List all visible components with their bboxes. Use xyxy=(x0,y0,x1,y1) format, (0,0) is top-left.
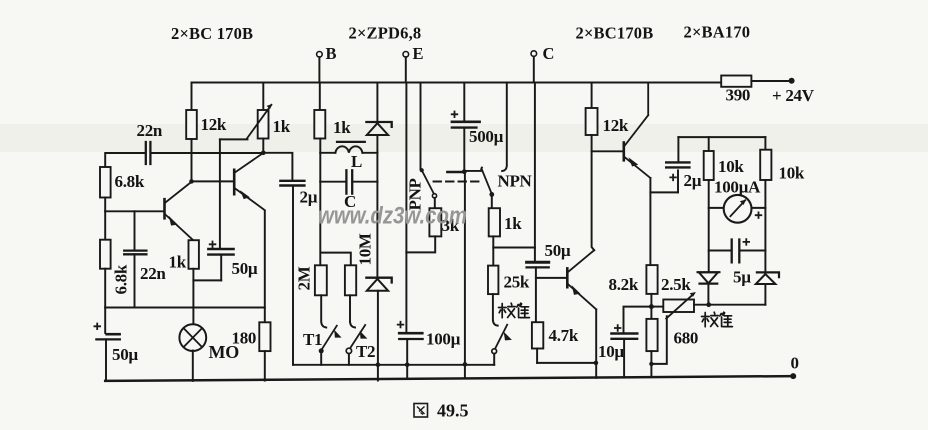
wire base node down to 4.7k xyxy=(535,278,537,322)
transistor Q3 emitter lead with arrow xyxy=(624,157,650,178)
svg-text:2M: 2M xyxy=(295,266,314,290)
wire bus to 12k R1 xyxy=(191,83,193,111)
svg-text:100µA: 100µA xyxy=(714,178,761,197)
wire 4.7k to emitter rail xyxy=(536,349,538,363)
resistor 10k R17 xyxy=(760,150,771,180)
transistor Q2 base bar xyxy=(233,170,236,194)
svg-text:www.dz3w.com: www.dz3w.com xyxy=(318,203,467,230)
svg-text:10µ: 10µ xyxy=(598,342,624,361)
faint scan band xyxy=(0,124,928,152)
wire tank left leg xyxy=(319,153,321,182)
plus of C10 xyxy=(614,324,621,331)
wire 6.8k R3 to bottom node xyxy=(104,269,106,308)
node wiper / 680 junction xyxy=(649,362,653,366)
transistor Q3 base bar xyxy=(622,143,625,161)
wire 1k R10 to 25k node xyxy=(492,236,494,265)
capacitor 2u C5 xyxy=(263,153,292,180)
wire zener ZPD1 to tank right leg xyxy=(376,135,378,182)
resistor 10k R16 xyxy=(704,151,714,180)
svg-text:2×BC170B: 2×BC170B xyxy=(576,24,654,43)
resistor 180 R5 xyxy=(259,322,270,351)
resistor 1k R6 xyxy=(314,110,325,139)
transistor Q1 collector lead xyxy=(165,182,192,203)
plus of C6 xyxy=(397,321,404,328)
svg-text:22n: 22n xyxy=(137,121,163,140)
transistor Q4 base bar xyxy=(566,268,569,287)
node Q4 emitter / rail junction xyxy=(594,361,599,366)
svg-text:390: 390 xyxy=(726,86,751,105)
resistor 1k R10 xyxy=(489,208,500,236)
resistor 1k R4 (Q1 emitter) xyxy=(189,240,199,269)
meter M1 100uA xyxy=(709,207,766,209)
resistor 2M R7 xyxy=(315,265,327,295)
plus of C3 xyxy=(94,323,102,330)
wire bus to 500u xyxy=(463,83,465,121)
svg-text:1k: 1k xyxy=(504,214,522,233)
capacitor 10u C10 (electrolytic) xyxy=(612,332,638,335)
wire 1k R6 to tank xyxy=(319,139,321,153)
svg-text:T2: T2 xyxy=(356,342,375,361)
transistor Q2 collector lead xyxy=(235,153,264,173)
wire Q1 base xyxy=(105,210,163,212)
wire bus to NPN switch fixed contact xyxy=(502,83,507,172)
hanzi 校准 (calibration, switch S2) xyxy=(702,312,733,327)
svg-text:10k: 10k xyxy=(718,157,744,176)
capacitor 22n C1 xyxy=(146,142,151,164)
wire emitter to 8.2k xyxy=(649,192,651,265)
bottom rail 0V xyxy=(105,376,793,381)
wire Q4 emitter to bottom rail xyxy=(595,309,597,378)
svg-text:2×ZPD6,8: 2×ZPD6,8 xyxy=(349,24,422,43)
wire tank down to zener ZPD2 xyxy=(376,182,378,277)
wire meter branch right xyxy=(764,137,766,150)
wire Q3 emitter node xyxy=(650,178,678,192)
wire C line down to 50u xyxy=(534,83,536,262)
terminal C xyxy=(531,51,537,57)
capacitor 5u C11 xyxy=(709,250,766,252)
svg-text:12k: 12k xyxy=(603,116,629,135)
resistor 390 (horizontal, in bus) xyxy=(721,76,751,87)
touch switch T1 xyxy=(321,295,326,327)
svg-text:5µ: 5µ xyxy=(733,268,751,287)
wire 500u line to bottom rail xyxy=(464,174,466,378)
diode D2 (up) xyxy=(757,272,779,277)
wire E line down xyxy=(405,83,407,253)
wire bus to zener ZPD1 xyxy=(376,83,378,122)
svg-text:1k: 1k xyxy=(169,253,187,272)
wire 2u to meter branch xyxy=(678,136,765,138)
wire tank to 2M/10M branch xyxy=(320,182,351,266)
resistor 8.2k R14 xyxy=(646,265,657,294)
svg-text:E: E xyxy=(413,44,424,63)
top supply bus wire +24V xyxy=(192,82,722,84)
wire 22n feedback line xyxy=(105,153,263,167)
transistor Q2 emitter lead with arrow xyxy=(235,188,265,210)
plus of meter xyxy=(755,212,762,219)
svg-text:1k: 1k xyxy=(273,117,291,136)
resistor 12k R13 xyxy=(586,108,598,135)
svg-text:NPN: NPN xyxy=(498,172,533,191)
svg-text:22n: 22n xyxy=(140,264,166,283)
terminal E xyxy=(403,52,409,58)
svg-text:2.5k: 2.5k xyxy=(661,275,691,294)
wire 180 to bottom rail xyxy=(264,351,266,381)
capacitor C (tank) xyxy=(320,181,345,183)
svg-text:500µ: 500µ xyxy=(469,127,504,146)
plus of C9 xyxy=(669,174,676,181)
capacitor 100u C6 (electrolytic) xyxy=(399,332,422,335)
capacitor 500u C7 (electrolytic) xyxy=(452,121,480,124)
resistor 25k R11 xyxy=(488,266,498,295)
wire B to bus xyxy=(318,57,320,82)
wire bus to 12k R13 xyxy=(591,83,593,109)
+24V terminal dot xyxy=(789,78,795,84)
wire 50u C4 bottom link xyxy=(193,279,221,281)
svg-text:6.8k: 6.8k xyxy=(112,264,131,294)
svg-text:+ 24V: + 24V xyxy=(772,86,815,105)
wire NPN switch to 1k xyxy=(491,197,493,208)
wire bus to PNP switch pivot xyxy=(420,83,422,170)
svg-text:L: L xyxy=(351,152,362,171)
svg-text:1k: 1k xyxy=(333,118,351,137)
svg-text:0: 0 xyxy=(791,354,799,373)
svg-text:180: 180 xyxy=(232,329,257,348)
node diode junction xyxy=(706,302,711,307)
wire 680 to bottom rail xyxy=(650,351,652,377)
resistor 6.8k R2 xyxy=(100,167,111,198)
wire Q2 emitter down xyxy=(264,211,266,322)
resistor 6.8k R3 xyxy=(104,211,106,239)
svg-text:2µ: 2µ xyxy=(300,188,318,207)
resistor 12k R1 xyxy=(186,110,197,139)
capacitor 50u C8 xyxy=(527,261,549,264)
svg-text:10M: 10M xyxy=(356,233,375,265)
wire bus to 1k pot P1 xyxy=(262,83,264,111)
capacitor 22n C2 xyxy=(134,211,136,249)
node 500u / emitter rail junction xyxy=(463,362,468,367)
resistor 4.7k R12 xyxy=(532,322,543,348)
svg-text:25k: 25k xyxy=(504,273,530,292)
svg-text:49.5: 49.5 xyxy=(437,401,469,421)
transistor Q4 collector lead xyxy=(568,250,595,272)
wire 6.8k R2 to Q1 base node xyxy=(104,198,106,212)
lamp MO xyxy=(179,324,206,351)
diode D1 (down) xyxy=(698,271,720,273)
svg-text:6.8k: 6.8k xyxy=(115,172,145,191)
potentiometer 2.5k P2 xyxy=(651,306,663,308)
potentiometer 1k P1 xyxy=(258,110,269,139)
wire 3k to E line xyxy=(406,236,435,252)
wire 12k to collector node xyxy=(191,139,193,181)
svg-text:2µ: 2µ xyxy=(684,171,702,190)
node zener2 / emitter rail junction xyxy=(376,363,381,368)
node Q1 collector junction xyxy=(189,179,194,184)
svg-text:50µ: 50µ xyxy=(232,259,258,278)
svg-text:10k: 10k xyxy=(779,164,805,183)
node NPN switch junction xyxy=(462,169,467,174)
wire collector node to Q2 base xyxy=(192,180,234,182)
wire bus to +24V terminal xyxy=(751,80,789,82)
plus of C11 xyxy=(743,238,750,245)
transistor Q1 emitter lead with arrow xyxy=(165,214,193,240)
wire switch to 3k xyxy=(434,198,436,208)
wire 2.5k wiper down xyxy=(651,316,666,364)
resistor 680 R15 xyxy=(646,319,657,351)
capacitor 50u C4 (electrolytic) xyxy=(219,139,221,248)
capacitor 50u C3 (electrolytic, bottom left) xyxy=(104,308,106,334)
svg-text:4.7k: 4.7k xyxy=(549,326,579,345)
dashed gang link xyxy=(434,181,481,183)
wire lower-left node rail xyxy=(105,307,265,309)
node 8.2k / 680 junction xyxy=(650,294,652,319)
transistor Q1 base bar xyxy=(163,199,166,218)
svg-text:100µ: 100µ xyxy=(426,330,461,349)
wire 12k R13 to Q3 base xyxy=(592,135,623,151)
zener diode ZPD1 xyxy=(366,122,391,127)
wire pot wiper to 50u C4 xyxy=(220,138,248,140)
capacitor 2u C9 xyxy=(677,170,679,192)
wire 1k R4 down to lamp xyxy=(192,269,194,325)
wire meter branch left xyxy=(708,137,710,151)
wire 50u to Q4 base xyxy=(536,267,567,278)
svg-text:680: 680 xyxy=(674,329,699,348)
wire node to 10u xyxy=(624,307,652,333)
hanzi 图 (figure caption) xyxy=(414,404,428,418)
inductor L with core xyxy=(320,152,335,154)
plus of C7 xyxy=(451,111,458,118)
node Q2 collector junction xyxy=(261,151,266,156)
wire emitter rail (right segment) xyxy=(537,362,596,364)
svg-text:2×BC 170B: 2×BC 170B xyxy=(171,24,253,43)
wire common emitter rail (inner, left) xyxy=(293,364,494,366)
svg-text:2×BA170: 2×BA170 xyxy=(684,23,751,42)
wire zener ZPD2 to bottom rail xyxy=(377,291,379,381)
wire bus to 1k R6 xyxy=(319,83,321,111)
svg-text:50µ: 50µ xyxy=(545,241,571,260)
wire 2.5k to diode branch xyxy=(694,304,709,306)
resistor 10M R8 xyxy=(345,265,356,295)
hanzi 校准 (calibration, switch S1) xyxy=(499,303,530,318)
transistor Q4 emitter lead with arrow xyxy=(568,284,597,310)
wire 12k line down to Q4 collector xyxy=(592,151,595,250)
switch calibration S1 xyxy=(493,294,498,326)
wire C to bus xyxy=(533,56,535,82)
transistor Q3 collector lead xyxy=(624,83,648,147)
wire diode bottom link xyxy=(709,304,766,306)
svg-text:T1: T1 xyxy=(303,330,322,349)
wire E to bus xyxy=(405,57,407,82)
svg-text:C: C xyxy=(543,44,555,63)
plus signs xyxy=(94,111,763,332)
terminal B xyxy=(317,52,323,58)
resistor 3k R9 xyxy=(429,208,441,236)
node 3k junction on E line xyxy=(405,252,407,332)
node 100u / emitter rail junction xyxy=(405,363,410,368)
switch NPN (selector) xyxy=(447,171,464,173)
wire node to C line xyxy=(493,247,535,249)
wire pot to Q2 collector node xyxy=(262,139,264,153)
svg-text:12k: 12k xyxy=(201,115,227,134)
svg-text:8.2k: 8.2k xyxy=(609,275,639,294)
switch PNP (selector) xyxy=(420,168,424,172)
touch switch T2 xyxy=(350,295,355,327)
svg-text:50µ: 50µ xyxy=(112,345,138,364)
zener diode ZPD2 xyxy=(366,278,391,283)
0V terminal dot xyxy=(790,373,796,379)
plus of C4 xyxy=(209,241,217,248)
svg-text:B: B xyxy=(326,44,337,63)
